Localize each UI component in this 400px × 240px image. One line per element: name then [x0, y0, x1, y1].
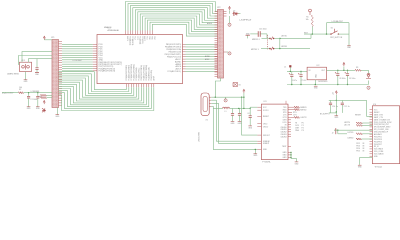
svg-text:PC5(SCL): PC5(SCL) [141, 36, 143, 44]
svg-text:LOOKJNET: LOOKJNET [73, 60, 83, 62]
power flag X-box near hook [233, 83, 241, 87]
svg-text:IC2: IC2 [317, 65, 320, 67]
label 16MHZ RESONATOR [7, 73, 20, 75]
label JP2 [217, 7, 221, 9]
label AREF net [2, 92, 15, 95]
MCU bottom pin names [125, 64, 156, 81]
svg-text:VCCIO: VCCIO [263, 110, 269, 112]
wire caps bottom rail [329, 113, 337, 116]
wire IC4 row TX [334, 130, 372, 131]
label M8TXD row2 [251, 49, 259, 51]
wire VBUS [211, 97, 244, 98]
bluetooth module IC4 body [372, 106, 399, 164]
ground under S1 [347, 46, 352, 49]
capacitor C8 [335, 70, 346, 84]
ground circle at JP2 mid [227, 52, 232, 55]
capacitor C16 on USB supply [238, 108, 241, 121]
svg-text:S1: S1 [331, 28, 333, 30]
capacitor C13 [258, 28, 267, 36]
connector JP1 (left pin header) [52, 40, 59, 108]
wire USBDM [211, 100, 257, 141]
JP1 right-side pins [59, 42, 63, 106]
svg-text:PB1: PB1 [151, 36, 153, 39]
svg-text:M8ADCS: M8ADCS [104, 26, 112, 29]
wire IC4 row5 + resistor R10 [347, 137, 372, 140]
label JP1 [51, 37, 55, 39]
svg-text:PC3: PC3 [136, 36, 138, 39]
IC3 unused pin labels [295, 123, 304, 132]
IC3 VCC stub top [285, 101, 287, 104]
capacitor C11 [341, 100, 350, 113]
wire R3 to LED1 [361, 70, 368, 74]
svg-text:LOWPASS: LOWPASS [31, 90, 41, 93]
MCU left pin names [99, 44, 123, 72]
wire +5V output [327, 70, 356, 71]
capacitor C2 to ground [27, 93, 37, 107]
wire row1 left [262, 37, 270, 39]
IC4 left pin stubs [370, 110, 373, 157]
wire 3V3OUT [242, 97, 258, 135]
MCU top pins wire bundle to JP2 [126, 2, 218, 37]
jumper SJ2 pads [269, 47, 274, 50]
junction on AREF at C3 [37, 92, 38, 93]
label USB rotated [198, 131, 200, 142]
junction on AREF at C2 [28, 92, 29, 93]
power arrow at JP2 top right [228, 7, 230, 14]
svg-text:D2: D2 [233, 11, 235, 13]
power arrow USB VCC [243, 89, 245, 97]
svg-text:J1: J1 [284, 66, 286, 68]
MCU left pins and wires to JP1 [62, 44, 97, 70]
net labels on JP2 wires [205, 55, 211, 61]
svg-text:PIO5: PIO5 [356, 151, 360, 153]
svg-text:RESET: RESET [355, 114, 362, 116]
svg-text:PB2: PB2 [153, 36, 155, 39]
wire TXD + resistor R4 [288, 106, 307, 109]
wire S1 to GND [338, 23, 349, 46]
svg-text:OSCO: OSCO [263, 126, 269, 128]
svg-text:C7 47u: C7 47u [301, 80, 307, 82]
wire IC4 GND [360, 157, 373, 165]
svg-text:PD7(AIN1/PCINT23): PD7(AIN1/PCINT23) [99, 70, 116, 73]
ground symbol IC3 left [253, 154, 258, 157]
junction VIN at C6 [290, 71, 291, 72]
svg-text:BT-SUPPLY: BT-SUPPLY [320, 113, 331, 115]
svg-text:C11 .1u: C11 .1u [344, 106, 350, 108]
capacitor C6 [289, 71, 297, 84]
wire row2 right [274, 48, 310, 49]
svg-text:C4: C4 [247, 113, 249, 115]
wire IC4 row RTS + resistor R8 [344, 124, 372, 126]
wire CF1 pin3 to XTAL2 [29, 59, 52, 63]
wire C4 to gnd [249, 118, 251, 126]
svg-text:M8RXD 1: M8RXD 1 [252, 39, 260, 41]
svg-text:WT11-A: WT11-A [375, 166, 383, 169]
wire J1 down [289, 67, 291, 71]
ground under IC3 [295, 162, 300, 165]
IC3 left pin names [263, 107, 271, 151]
ground flag IC3 left [255, 149, 256, 154]
wire RXD + resistor R5 [288, 109, 307, 112]
ground symbol under regulator [314, 86, 319, 89]
svg-text:L1: L1 [225, 111, 227, 113]
USB connector X1 body [201, 93, 209, 116]
svg-text:MC33269D: MC33269D [318, 81, 328, 83]
svg-text:100: 100 [19, 87, 22, 89]
wire JP1 bottom to ground [56, 108, 58, 115]
svg-text:PC5(ADC5/SCL): PC5(ADC5/SCL) [168, 70, 182, 73]
wire VCC row IC4 [329, 99, 367, 101]
ground under C3 [36, 107, 41, 110]
ground under C15 [231, 122, 236, 125]
ground circle LED [367, 86, 370, 89]
ground under CF1 [24, 80, 29, 83]
net label left of top bundle [104, 26, 112, 29]
net label near JP2 corner [207, 22, 213, 25]
svg-text:USB-B-SMD: USB-B-SMD [198, 131, 200, 142]
wire C13 to jumper [261, 34, 268, 39]
power arrow +5V [343, 63, 345, 72]
solder jumper RESET-EN dashed [267, 35, 269, 50]
capacitor C1 right of CF1 [35, 59, 40, 76]
jumper SJ1 pads [269, 37, 274, 40]
svg-text:AREF: AREF [205, 58, 210, 61]
wire USBDP [211, 103, 257, 143]
svg-text:U4DTR: U4DTR [300, 117, 307, 119]
wire row2 left [261, 48, 270, 50]
svg-text:PB0: PB0 [148, 36, 150, 39]
label U4RXD row2 [281, 46, 288, 48]
wire VCC to IC4 pin [367, 100, 373, 116]
svg-text:16MHZ RESO: 16MHZ RESO [7, 73, 20, 75]
ground under C2 [27, 107, 32, 110]
svg-text:C6 47u: C6 47u [292, 80, 298, 82]
label under regulator [318, 81, 328, 83]
ground circle on VBUS [224, 97, 227, 102]
power arrow near RN1 [43, 101, 45, 105]
label under S1 [330, 37, 343, 39]
label cut-trace note [239, 20, 252, 22]
wire AREF left [2, 92, 18, 94]
label under IC4 [375, 166, 383, 169]
label FT232RL [262, 162, 271, 164]
svg-text:M8TXD 3: M8TXD 3 [251, 49, 259, 51]
svg-text:3V3OUT: 3V3OUT [263, 135, 271, 137]
wire AREF mid [24, 92, 53, 94]
label IC4 [373, 104, 376, 106]
IC3 GND wires [288, 152, 297, 162]
label IC3 [264, 101, 267, 103]
stub RTS + label [288, 112, 297, 114]
resistor R3 to LED [355, 67, 361, 71]
label IC2 [317, 65, 320, 67]
MCU top pin names [126, 36, 155, 45]
wire IC4 row CTS + resistor R7 [344, 122, 372, 124]
wire vertical join RST [326, 23, 328, 34]
label RST [304, 32, 309, 34]
regulator pin names [309, 70, 326, 78]
svg-text:R3: R3 [356, 67, 358, 69]
svg-text:C13 100n: C13 100n [259, 28, 267, 30]
label U4TXD row1 [281, 36, 288, 38]
IC3 TEST stub [288, 145, 291, 147]
svg-text:10k: 10k [306, 19, 309, 21]
label on AREF wire [31, 90, 41, 93]
capacitor C4 on VDD [247, 108, 251, 117]
junction RST-R1 [312, 33, 313, 34]
connector JP2 (right pin header) [218, 10, 224, 79]
svg-text:CBUS4: CBUS4 [281, 136, 287, 138]
svg-text:OSCI: OSCI [263, 123, 268, 125]
wire CF1 left side riser [19, 56, 53, 65]
svg-text:RST_BUTTON: RST_BUTTON [330, 37, 343, 39]
wire GND to C13 [250, 33, 258, 35]
svg-text:P3: P3 [302, 130, 304, 132]
IC3 right CBUS stubs [288, 120, 291, 137]
wire USB VCC to FT232 [213, 107, 222, 109]
ground flag at C13 [246, 33, 251, 38]
svg-text:M8TXD: M8TXD [300, 109, 307, 111]
inductor L1 [223, 107, 230, 113]
IC4 PIO labels [356, 143, 365, 153]
label L4XUAL-RST [332, 20, 344, 23]
resistor R2 on AREF [18, 87, 23, 94]
svg-text:U4RXD: U4RXD [347, 137, 354, 139]
svg-text:IC3: IC3 [264, 101, 267, 103]
ground under C16 [238, 122, 243, 125]
wire row1 right [274, 34, 311, 39]
ground circle at JP2 right [228, 23, 231, 26]
diode D2 right of JP2 [233, 11, 239, 16]
svg-text:GND: GND [263, 149, 268, 151]
wire CF1 pin1 to XTAL1 [22, 52, 52, 63]
label X1 [206, 120, 208, 122]
label M8RXD row1 [252, 39, 260, 41]
junction VIN at C7 [300, 71, 301, 72]
capacitor C10 [329, 100, 338, 113]
svg-text:C9 100u: C9 100u [349, 78, 355, 80]
MCU right pin names [165, 44, 182, 73]
net label on left wires [73, 60, 83, 62]
capacitor C15 on USB supply [231, 108, 234, 121]
wire VCC vertical IC4 [336, 95, 337, 113]
wire row1-row2 vertical [279, 38, 281, 48]
resistor RN1A into JP1 [41, 94, 53, 96]
ground under C4 [248, 126, 253, 129]
capacitor C9 [345, 70, 356, 84]
capacitor C7 [298, 71, 306, 84]
MCU bottom pins wire bundle to JP1 [59, 72, 154, 111]
label ATMEGA8 [108, 29, 120, 32]
regulator IC2 body [307, 67, 326, 80]
label CF1 [21, 60, 26, 62]
power arrow at IC4 caps [333, 91, 338, 95]
svg-text:J2: J2 [332, 132, 334, 134]
svg-text:AREF: AREF [207, 22, 213, 25]
capacitor C12 level [332, 128, 338, 134]
wire DTR-RST upper [327, 22, 350, 24]
svg-text:U4TXD: U4TXD [347, 132, 354, 134]
wire USB GND [211, 106, 257, 149]
switch S1 reset button [330, 28, 339, 35]
svg-text:R2: R2 [19, 89, 21, 91]
power flag J1 [284, 65, 291, 68]
svg-text:C10 .1u: C10 .1u [332, 106, 338, 108]
label M8 net [0, 0, 1, 1]
svg-text:C2 100n: C2 100n [30, 99, 37, 101]
svg-text:RESET: RESET [263, 116, 270, 118]
JP2 left-side pin stubs [215, 12, 218, 77]
svg-text:PC2: PC2 [133, 36, 135, 39]
ground under IC4 caps [334, 116, 339, 119]
svg-text:L4XUAL/RST: L4XUAL/RST [332, 20, 344, 23]
power flag +5V at JP1 top [43, 36, 52, 40]
wire RST row [304, 33, 331, 35]
svg-text:X1: X1 [206, 120, 208, 122]
ground under IC4 [358, 165, 363, 168]
MCU IC1 ATMEGA8 body [97, 35, 183, 84]
label under cap circuit [320, 113, 331, 115]
power circle VCC at R1 [309, 9, 312, 15]
wire VIN rail [287, 70, 307, 72]
svg-text:GND: GND [283, 157, 288, 159]
wire R1 to RST [311, 27, 313, 35]
ground rail [287, 84, 369, 85]
svg-text:U4TXD: U4TXD [281, 36, 288, 38]
USB-serial IC3 body [261, 104, 288, 160]
label IC1 [108, 27, 112, 29]
X1 pins [209, 97, 211, 106]
wire DTR + resistor R6 [288, 116, 307, 119]
wire L1 to VDD [230, 107, 258, 109]
wire D2 to GND [230, 14, 241, 24]
wire LED1 to ground [368, 81, 370, 85]
label reset net [355, 114, 362, 116]
svg-text:ATMEGA8-AI: ATMEGA8-AI [108, 29, 120, 32]
capacitor C3 to ground [36, 93, 42, 107]
svg-text:PC6: PC6 [146, 36, 148, 39]
wire CF1 pin2 to GND [25, 72, 27, 80]
svg-text:AGND: AGND [205, 55, 211, 58]
svg-text:U4CTS: U4CTS [344, 125, 351, 127]
svg-text:IC4: IC4 [373, 104, 376, 106]
wire regulator GND [314, 80, 316, 85]
wire JP2 bottom hook to USB VBUS [215, 78, 220, 97]
IC3 right pin names [281, 107, 288, 159]
stub CTS + label [288, 115, 297, 117]
svg-text:USBDP: USBDP [263, 143, 270, 145]
resonator CF1 body [20, 62, 32, 71]
wire IC4 row RX + resistor R9 [338, 130, 373, 135]
JP2 right-side pin stubs [224, 12, 227, 53]
svg-text:FT232RL: FT232RL [262, 162, 271, 164]
junction RST join [326, 33, 327, 34]
ground under JP1 [55, 115, 60, 118]
diode D1 left of JP1 bottom [39, 96, 47, 112]
wire VBUS to L1 net [243, 97, 244, 110]
IC3 left pins [257, 107, 261, 149]
svg-text:RNG: RNG [295, 130, 300, 132]
LED1 power [366, 74, 371, 79]
svg-text:C8 100u: C8 100u [339, 78, 345, 80]
resistor RN1B into JP1 [41, 97, 53, 99]
resistor R1 pull-up [306, 15, 314, 27]
svg-text:L-JUMPER-off: L-JUMPER-off [239, 20, 252, 22]
svg-text:AREF: AREF [153, 76, 156, 81]
svg-text:U4RXD: U4RXD [281, 46, 288, 48]
MCU right pins and wires to JP2 [183, 44, 218, 71]
IC4 left pin names [374, 110, 393, 159]
